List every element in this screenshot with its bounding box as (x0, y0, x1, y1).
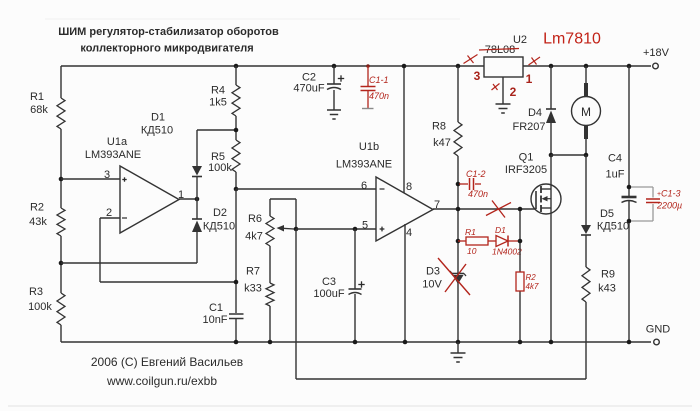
node R8-C1-2 junction (456, 182, 461, 187)
svg-text:M: M (581, 105, 591, 119)
wire U1b pin8 from rail (403, 66, 405, 193)
svg-text:2200µ: 2200µ (656, 201, 682, 211)
svg-text:GND: GND (646, 324, 671, 336)
svg-text:www.coilgun.ru/exbb: www.coilgun.ru/exbb (106, 374, 217, 388)
red X strike on gate wire (486, 201, 511, 218)
node U1a output (195, 197, 200, 202)
svg-text:U1a: U1a (107, 136, 128, 148)
credit text (91, 355, 243, 388)
svg-text:R9: R9 (601, 269, 615, 281)
svg-text:R2: R2 (30, 202, 44, 214)
node R6 wiper junction (294, 227, 299, 232)
wire C4 column top (628, 66, 630, 196)
svg-text:D1: D1 (495, 225, 506, 235)
wire U1a output (179, 198, 197, 200)
node pin5 C3 junction (353, 227, 358, 232)
op-amp U1a (85, 136, 184, 233)
capacitor C2 (293, 66, 344, 110)
svg-text:Lm7810: Lm7810 (543, 31, 601, 48)
resistor R2 (29, 202, 65, 237)
svg-text:R6: R6 (248, 213, 262, 225)
node rail motor (584, 64, 589, 69)
svg-text:R1: R1 (465, 227, 476, 237)
svg-text:R2: R2 (526, 273, 537, 282)
svg-text:D5: D5 (600, 208, 614, 220)
node R7 bottom rail (268, 340, 273, 345)
faint page border bottom (8, 405, 692, 407)
svg-text:КД510: КД510 (203, 221, 235, 233)
title text (58, 26, 279, 55)
wire wiper to pin5 (296, 228, 376, 230)
node rail C2 (332, 64, 337, 69)
wire bottom ground rail (61, 341, 651, 343)
svg-text:C1-1: C1-1 (369, 75, 389, 85)
svg-text:LM393ANE: LM393ANE (336, 159, 392, 171)
red strike marks on U2 wires (464, 55, 541, 91)
svg-text:R1: R1 (30, 91, 44, 103)
resistor R1 (30, 91, 65, 129)
svg-text:R8: R8 (432, 121, 446, 133)
svg-text:100k: 100k (208, 162, 232, 174)
capacitor C3 (313, 229, 364, 342)
wire pin3 to U1a (61, 178, 120, 180)
svg-text:68k: 68k (30, 104, 48, 116)
svg-text:IRF3205: IRF3205 (505, 164, 547, 176)
faint page border top (45, 18, 460, 20)
node gate top (518, 207, 523, 212)
svg-text:D3: D3 (426, 266, 440, 278)
svg-text:4k7: 4k7 (526, 282, 539, 291)
resistor R4 (209, 66, 240, 140)
node divider-top junction pin3 (59, 177, 64, 182)
wire feedback bottom loop (296, 229, 586, 379)
svg-text:1k5: 1k5 (209, 97, 227, 109)
resistor R3 (28, 286, 65, 325)
node drain junction (549, 153, 554, 158)
node divider-bottom junction (59, 261, 64, 266)
node rail C1-1 (366, 64, 370, 68)
wire pin6 feed (236, 188, 376, 190)
svg-text:100k: 100k (28, 301, 52, 313)
svg-text:C1: C1 (209, 302, 223, 314)
node rail R8 (456, 64, 461, 69)
node gate line junction (456, 207, 461, 212)
label Lm7810 (red) (543, 31, 601, 48)
svg-text:D4: D4 (528, 107, 542, 119)
svg-text:R4: R4 (211, 85, 225, 97)
ground C2 (327, 110, 341, 119)
diode D5 (581, 155, 629, 267)
svg-text:3: 3 (104, 169, 110, 181)
svg-text:C4: C4 (608, 153, 622, 165)
capacitor C1-2 (red mod) (459, 169, 488, 199)
ground U2 (496, 104, 511, 113)
capacitor C1 (202, 302, 243, 342)
diode D1 1N4002 (red mod) (492, 225, 522, 257)
node rail R4 (234, 64, 239, 69)
node rail C4 (627, 64, 632, 69)
svg-text:U1b: U1b (359, 141, 379, 153)
svg-text:КД510: КД510 (141, 125, 173, 137)
svg-text:LM393ANE: LM393ANE (85, 149, 141, 161)
svg-text:2: 2 (510, 85, 517, 99)
resistor R8 (432, 66, 462, 342)
wire gate-divider column (519, 209, 521, 342)
wire U2 ground pin (502, 77, 504, 104)
node pin4 bottom rail (403, 340, 408, 345)
node C3 bottom rail (353, 340, 358, 345)
resistor R9 (582, 267, 616, 379)
node R5 bottom junction (234, 187, 239, 192)
node x520 bottom rail (518, 340, 523, 345)
node rail D4 (549, 64, 554, 69)
svg-text:1: 1 (526, 72, 533, 86)
wire drain link (551, 155, 586, 189)
svg-text:3: 3 (474, 69, 481, 83)
capacitor C4 (606, 153, 637, 343)
svg-text:1N4002: 1N4002 (492, 247, 522, 257)
capacitor C1-1 (red mod) (361, 66, 390, 109)
svg-text:2006 (С) Евгений Васильев: 2006 (С) Евгений Васильев (91, 355, 243, 369)
node C1 bottom rail (234, 340, 239, 345)
svg-text:4: 4 (406, 227, 412, 239)
wire U1b pin4 to ground rail (404, 224, 406, 342)
svg-text:FR207: FR207 (512, 121, 545, 133)
svg-text:4k7: 4k7 (245, 231, 263, 243)
resistor R5 (208, 140, 240, 189)
svg-text:8: 8 (406, 181, 412, 193)
wire feedback D2 to divider (61, 262, 197, 264)
node C4 top junction (627, 185, 632, 190)
wire U1a pin2 loop (100, 218, 236, 282)
node R4-R5 junction (234, 128, 239, 133)
resistor R1 (red mod) (458, 227, 496, 256)
svg-text:C1-2: C1-2 (466, 169, 486, 179)
node source bottom rail (549, 340, 554, 345)
svg-text:10: 10 (467, 246, 477, 256)
svg-text:43k: 43k (29, 216, 47, 228)
svg-text:Q1: Q1 (519, 152, 534, 164)
svg-text:k33: k33 (244, 283, 262, 295)
node R8 col bottom rail (456, 340, 461, 345)
svg-text:10nF: 10nF (202, 314, 227, 326)
wire top +18V rail right of U2 (523, 65, 651, 67)
wire Q1 source to rail (550, 208, 552, 342)
svg-text:коллекторного микродвигателя: коллекторного микродвигателя (80, 43, 253, 55)
terminal +18V (643, 47, 670, 69)
red pin numbers U2 (474, 69, 533, 99)
svg-text:R3: R3 (29, 286, 43, 298)
svg-text:5: 5 (362, 220, 368, 232)
resistor R2 (red mod) (516, 272, 539, 291)
op-amp U1b (336, 141, 440, 241)
svg-text:КД510: КД510 (597, 221, 629, 233)
svg-text:470n: 470n (468, 189, 488, 199)
wire D1 to R4-R5 junction (197, 129, 236, 131)
svg-text:470n: 470n (369, 91, 389, 101)
svg-text:D2: D2 (213, 207, 227, 219)
wire top +18V rail left of U2 (61, 65, 484, 67)
node R1 branch junction (456, 239, 461, 244)
potentiometer R6 (245, 199, 296, 283)
transistor Q1 IRF3205 (505, 152, 561, 215)
regulator U2 78L08 (484, 34, 527, 77)
svg-text:ШИМ регулятор-стабилизатор обо: ШИМ регулятор-стабилизатор оборотов (58, 26, 279, 38)
node C4 bottom junction (627, 219, 632, 224)
diode D4 (512, 66, 556, 155)
svg-text:2: 2 (106, 207, 112, 219)
svg-text:1uF: 1uF (606, 169, 625, 181)
diode D2 (192, 199, 235, 263)
red strike through 78L08 (479, 49, 519, 51)
wire left divider column (60, 66, 62, 342)
svg-text:R7: R7 (246, 266, 260, 278)
capacitor C1-3 (red mod bracket) (631, 187, 682, 221)
svg-text:470uF: 470uF (293, 83, 324, 95)
wire U1b output to gate (433, 208, 536, 210)
wire R5-C1 column (235, 189, 237, 313)
zener D3 (422, 266, 466, 291)
node C4 bottom rail (627, 340, 632, 345)
svg-text:6: 6 (361, 180, 367, 192)
svg-text:D1: D1 (151, 112, 165, 124)
node C1 top junction (234, 280, 239, 285)
node rail pin8 (402, 64, 407, 69)
svg-text:10V: 10V (422, 279, 442, 291)
svg-text:+18V: +18V (643, 47, 670, 59)
node motor bottom junction (584, 153, 589, 158)
svg-text:100uF: 100uF (313, 288, 344, 300)
resistor R7 (244, 266, 274, 343)
svg-text:C1-3: C1-3 (661, 189, 681, 199)
node R1 branch right (518, 239, 523, 244)
svg-text:k43: k43 (598, 283, 616, 295)
svg-text:C3: C3 (322, 276, 336, 288)
ground bottom rail symbol (451, 342, 466, 362)
motor M (572, 66, 601, 155)
red X over D3 (438, 258, 470, 295)
svg-text:k47: k47 (433, 137, 451, 149)
diode D1 (141, 112, 202, 200)
terminal GND (646, 324, 671, 345)
